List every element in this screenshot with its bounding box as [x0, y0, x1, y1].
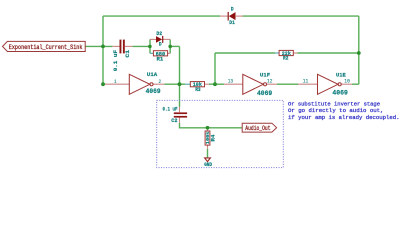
svg-text:D: D	[231, 7, 235, 13]
svg-text:0.1 uF: 0.1 uF	[163, 107, 178, 113]
svg-text:Audio_Out: Audio_Out	[245, 125, 270, 132]
svg-text:1: 1	[114, 79, 117, 85]
svg-text:12: 12	[267, 79, 272, 85]
svg-text:D2: D2	[156, 31, 162, 37]
svg-text:D: D	[159, 42, 163, 48]
svg-text:R1: R1	[157, 56, 164, 63]
svg-text:13: 13	[228, 79, 233, 85]
svg-text:0.1 uF: 0.1 uF	[113, 50, 119, 71]
svg-text:R2: R2	[283, 56, 288, 62]
svg-text:if your amp is already decoupl: if your amp is already decoupled.	[288, 114, 400, 121]
svg-text:11: 11	[303, 79, 309, 85]
svg-text:U1A: U1A	[147, 71, 158, 78]
svg-text:U1E: U1E	[336, 72, 346, 79]
svg-text:4069: 4069	[146, 88, 161, 95]
svg-text:C2: C2	[171, 118, 177, 124]
svg-text:U1F: U1F	[260, 72, 271, 79]
svg-text:GND: GND	[204, 162, 212, 168]
svg-text:D1: D1	[229, 20, 235, 26]
svg-text:4069: 4069	[332, 90, 348, 97]
svg-text:R4: R4	[211, 135, 217, 142]
svg-text:C1: C1	[125, 50, 131, 58]
svg-text:R3: R3	[195, 87, 200, 93]
svg-text:Exponential_Current_Sink: Exponential_Current_Sink	[9, 44, 83, 51]
svg-text:10: 10	[344, 79, 350, 85]
svg-text:2: 2	[159, 79, 162, 85]
svg-text:4069: 4069	[257, 90, 272, 97]
